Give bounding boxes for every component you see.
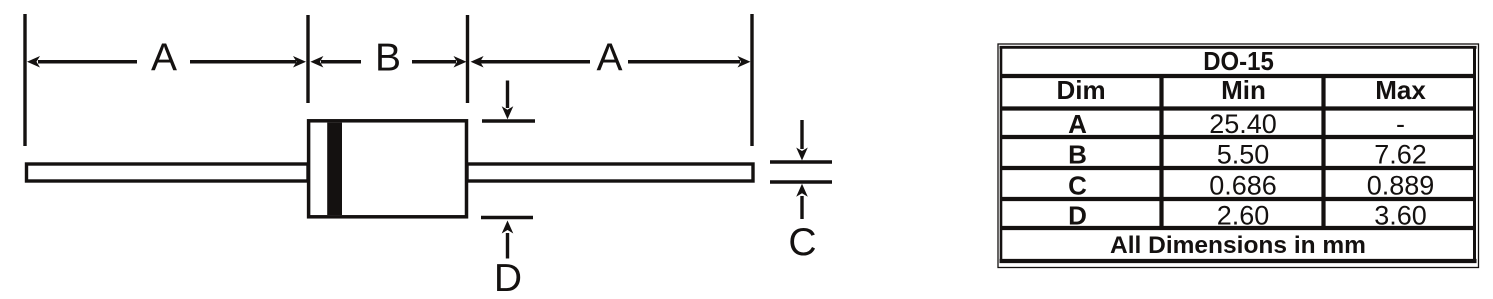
svg-text:-: - [1396,109,1405,139]
svg-text:25.40: 25.40 [1209,109,1277,139]
svg-text:0.686: 0.686 [1209,171,1277,201]
svg-text:DO-15: DO-15 [1203,46,1274,76]
svg-text:A: A [1068,109,1087,139]
svg-text:B: B [1068,140,1087,170]
svg-text:A: A [596,37,622,80]
svg-text:Max: Max [1375,75,1426,105]
svg-text:0.889: 0.889 [1367,171,1435,201]
svg-text:D: D [1068,201,1087,231]
svg-text:C: C [788,221,816,264]
svg-text:All Dimensions in mm: All Dimensions in mm [1110,232,1366,259]
svg-text:A: A [151,37,177,80]
svg-text:D: D [494,257,522,299]
svg-text:3.60: 3.60 [1374,201,1427,231]
svg-text:5.50: 5.50 [1217,140,1270,170]
svg-text:2.60: 2.60 [1217,201,1270,231]
svg-text:B: B [375,37,401,80]
svg-text:Min: Min [1221,75,1266,105]
svg-text:C: C [1068,171,1087,201]
svg-text:Dim: Dim [1056,75,1105,105]
svg-text:7.62: 7.62 [1374,140,1427,170]
